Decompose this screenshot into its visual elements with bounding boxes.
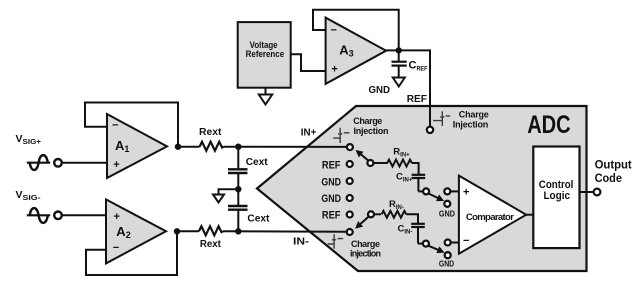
- capacitor Cext (top): [228, 147, 268, 190]
- wire (A1 output row): [178, 146, 200, 148]
- svg-text:Cext: Cext: [246, 157, 269, 168]
- svg-text:IN-: IN-: [293, 236, 310, 248]
- svg-text:IN+: IN+: [301, 126, 317, 138]
- label VSIG-: [16, 189, 42, 202]
- svg-text:+: +: [113, 159, 119, 171]
- svg-text:Charge: Charge: [459, 109, 489, 119]
- op-amp A1: [107, 114, 167, 178]
- switch (IN- sampling): [357, 211, 374, 227]
- pin IN- (open circle): [347, 229, 353, 235]
- op-amp A3: [326, 18, 387, 84]
- svg-text:GND: GND: [321, 193, 341, 205]
- switch (comparator - input): [423, 240, 455, 269]
- charge injection glitch (IN-): [328, 234, 343, 249]
- svg-text:Injection: Injection: [354, 126, 389, 136]
- label IN-: [293, 236, 310, 248]
- wire (RIN+ to CIN+): [412, 163, 419, 174]
- pin IN+ (open circle): [347, 144, 353, 150]
- resistor Rext (bottom): [199, 226, 223, 250]
- node (mid between Cext): [235, 186, 241, 192]
- pin REF (ADC top, open circle): [427, 127, 433, 133]
- wire (to comparator -): [451, 242, 459, 244]
- label IN+: [301, 126, 317, 138]
- label Charge Injection (IN+): [353, 116, 388, 136]
- svg-text:Charge: Charge: [351, 239, 380, 249]
- svg-text:Rext: Rext: [199, 127, 222, 138]
- wire (A3 feedback loop): [313, 10, 399, 51]
- capacitor CREF: [392, 50, 407, 77]
- ground (below voltage reference): [259, 88, 272, 105]
- capacitor CIN-: [398, 224, 425, 244]
- svg-text:Logic: Logic: [543, 190, 570, 202]
- svg-text:REF: REF: [407, 93, 428, 105]
- svg-text:Code: Code: [595, 171, 622, 185]
- wire (A2 output row): [177, 230, 199, 232]
- svg-text:−: −: [113, 242, 119, 254]
- ground (between Cext): [213, 195, 224, 203]
- node (A3 output junction): [396, 47, 402, 53]
- node (A2 output): [174, 228, 180, 234]
- svg-text:Injection: Injection: [453, 119, 489, 129]
- pin Output Code (open circle): [594, 189, 601, 196]
- ground (below CREF): [393, 78, 405, 87]
- node (top Cext junction): [235, 144, 241, 150]
- svg-text:−: −: [112, 119, 118, 131]
- svg-text:Comparator: Comparator: [466, 212, 514, 223]
- capacitor Cext (bottom): [228, 189, 270, 231]
- svg-text:REF: REF: [322, 160, 341, 172]
- wire (mid node to ground): [219, 189, 239, 194]
- svg-text:−: −: [331, 25, 337, 37]
- comparator U1: [459, 176, 526, 254]
- svg-text:Cext: Cext: [247, 214, 270, 225]
- source VSIG- (sine): [27, 208, 62, 223]
- op-amp A2: [106, 199, 166, 263]
- resistor RIN-: [382, 199, 407, 218]
- wire (A3 output to REF pin): [386, 50, 430, 126]
- capacitor CIN+: [396, 172, 425, 192]
- resistor Rext (top): [199, 127, 224, 151]
- wire (Rext to IN-): [223, 230, 346, 233]
- ADC body: [257, 106, 587, 271]
- label Charge injection (IN-): [350, 239, 381, 259]
- svg-text:injection: injection: [350, 249, 381, 259]
- voltage reference box: [238, 22, 291, 88]
- wire (control logic to output pin): [580, 191, 593, 193]
- wire (comparator to control logic): [526, 214, 533, 216]
- pin REF (row4): [322, 210, 353, 222]
- ADC label: [527, 111, 571, 139]
- svg-text:Rext: Rext: [200, 239, 222, 250]
- node REF label: [407, 93, 428, 105]
- wire (RIN- to CIN-): [406, 214, 418, 223]
- wire (vref output to A3 +): [291, 54, 326, 71]
- wire (A1 feedback loop): [85, 103, 178, 147]
- wire (to comparator +): [451, 190, 459, 192]
- svg-text:Charge: Charge: [353, 116, 382, 126]
- svg-text:GND: GND: [369, 85, 391, 96]
- value label CREF: [409, 60, 428, 73]
- GND label (A3 area): [369, 85, 391, 96]
- svg-text:REF: REF: [322, 210, 341, 222]
- svg-text:+: +: [331, 63, 337, 75]
- wire (switch to RIN+): [374, 162, 388, 164]
- label VSIG+: [16, 133, 42, 146]
- svg-text:Output: Output: [595, 157, 632, 171]
- label Output Code: [595, 157, 632, 185]
- svg-text:+: +: [114, 211, 120, 223]
- svg-text:GND: GND: [439, 259, 455, 268]
- node (A1 output): [175, 144, 181, 150]
- svg-text:+: +: [463, 186, 469, 198]
- wire (Rext to IN+): [224, 146, 346, 148]
- wire (A2 feedback loop): [86, 231, 177, 275]
- svg-text:ADC: ADC: [527, 111, 571, 139]
- control logic block: [533, 147, 579, 249]
- resistor RIN+: [387, 146, 412, 166]
- svg-text:GND: GND: [321, 176, 341, 188]
- charge injection glitch (REF pin): [433, 111, 450, 126]
- svg-text:GND: GND: [439, 210, 455, 219]
- pin REF (row1): [322, 160, 353, 172]
- wire (switch to RIN-): [375, 213, 381, 215]
- label Charge Injection (REF): [453, 109, 489, 129]
- pin GND (row3): [321, 193, 352, 205]
- source VSIG+ (sine): [27, 155, 62, 170]
- charge injection glitch (IN+): [333, 128, 349, 143]
- wire (VSIG+ to A1): [62, 162, 107, 164]
- wire (VSIG- to A2): [62, 214, 106, 216]
- switch (IN+ sampling): [358, 152, 374, 167]
- pin GND (row2): [321, 176, 352, 188]
- switch (comparator + input): [423, 188, 455, 218]
- node (bottom Cext junction): [235, 228, 241, 234]
- svg-text:Reference: Reference: [246, 49, 285, 59]
- svg-text:−: −: [463, 235, 469, 247]
